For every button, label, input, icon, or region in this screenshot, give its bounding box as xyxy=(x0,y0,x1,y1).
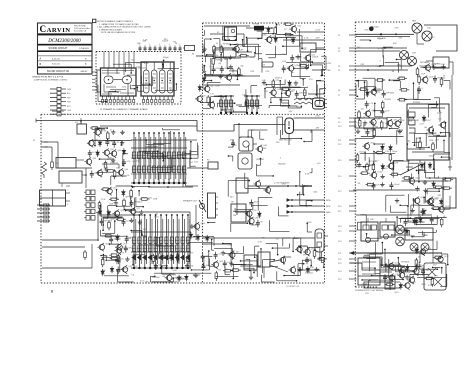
transistor Q55 xyxy=(400,267,405,272)
ground (amp B input stage) xyxy=(112,130,114,132)
svg-text:P20: P20 xyxy=(338,241,341,243)
transistor Q52 (amp B mid stage) xyxy=(107,188,112,193)
wire (PS lower wiring run 6) xyxy=(362,279,369,281)
svg-text:2N3904: 2N3904 xyxy=(215,60,223,62)
wire (amp A right wiring run 5) xyxy=(268,57,275,59)
power amp A dashed left xyxy=(202,23,204,283)
svg-text:P19: P19 xyxy=(338,231,341,233)
connector pin pair 1 xyxy=(86,190,90,195)
resistor R201 xyxy=(51,160,53,162)
svg-text:10K: 10K xyxy=(282,61,286,63)
wire (PS wiring run 11) xyxy=(434,97,439,99)
wire (PS wiring run 43) xyxy=(374,89,382,91)
op-amp U2 pin 6 xyxy=(163,96,165,100)
op-amp U2 pill 1 xyxy=(144,70,150,93)
wire (PS out parts) xyxy=(385,264,387,272)
transistor Q45 xyxy=(280,257,285,262)
connector stub row 3 xyxy=(50,96,57,98)
ground (protect lower) xyxy=(230,262,232,264)
wire (output bank B lower bus y=232) xyxy=(131,231,191,233)
wire (output bank B lower bus y=252) xyxy=(131,251,191,253)
wire +78V rail xyxy=(312,62,325,64)
wire (mid col lower wiring run 12) xyxy=(249,259,251,270)
transistor Q75 (amp B lower right) xyxy=(167,275,172,280)
connector ring ticks xyxy=(325,99,328,101)
svg-text:SOUND CIRCUIT: SOUND CIRCUIT xyxy=(49,47,69,50)
transistor Q79 (mid driver parts) xyxy=(249,218,254,223)
wire (amp A right wiring run 3) xyxy=(281,93,283,103)
resistor R2 (amp A input stage) xyxy=(220,45,222,47)
wire (PS regulator) xyxy=(374,110,383,112)
wire (PS wiring run 31) xyxy=(412,83,414,99)
wire (amp B lower wiring run 7) xyxy=(155,237,159,239)
diode D31 (PS right mid) xyxy=(440,198,442,200)
transistor Q27 (amp B input stage) xyxy=(95,130,100,135)
wire (mid col wiring run 19) xyxy=(247,130,249,137)
resistor R58 (PS out parts) xyxy=(385,283,387,285)
node PS stub 10 xyxy=(349,125,357,127)
wire (mid col lower wiring run 21) xyxy=(270,266,278,268)
svg-text:4.7K: 4.7K xyxy=(102,188,107,190)
resistor R28 (amp B lower left) xyxy=(109,254,111,256)
svg-text:7: 7 xyxy=(125,105,126,107)
wire (mid col wiring run 27) xyxy=(232,140,234,147)
wire (preamp wiring run 10) xyxy=(98,101,106,103)
wire (amp A right wiring run 20) xyxy=(282,86,301,88)
resistor R90 right of preamp xyxy=(185,46,195,51)
svg-text:4-16-03: 4-16-03 xyxy=(52,59,60,61)
svg-text:3: 3 xyxy=(110,105,111,107)
wire (amp A right wiring run 24) xyxy=(320,69,322,75)
wire (mid col wiring run 14) xyxy=(269,230,289,232)
svg-text:MPSA06: MPSA06 xyxy=(176,277,185,280)
resistor R54 (PS lower mid) xyxy=(431,207,433,209)
wire fan loop xyxy=(424,25,457,51)
svg-text:MPSA06: MPSA06 xyxy=(134,201,143,204)
diode D1 (amp A input stage) xyxy=(203,76,205,78)
svg-text:15V: 15V xyxy=(143,229,147,231)
wire lower bus 1 xyxy=(42,239,98,241)
preamp left pin 4 xyxy=(92,82,96,84)
ground (amp A protect) xyxy=(263,80,265,82)
wire (mid col wiring run 25) xyxy=(306,223,308,232)
wire (amp B lower wiring run 3) xyxy=(208,251,210,266)
capacitor C25 (protect lower) xyxy=(224,260,226,263)
wire (mid col lower wiring run 9) xyxy=(277,244,279,255)
wire cell B inner xyxy=(409,107,445,109)
wire (spkr area wires run 2) xyxy=(320,252,322,262)
wire (amp A right wiring run 2) xyxy=(300,106,302,108)
op-amp U1 hatch xyxy=(102,70,134,72)
wire top supply bus xyxy=(36,120,197,122)
wire (PS lower wiring run 4) xyxy=(436,241,438,250)
wire (PS lower wiring run 14) xyxy=(419,268,437,270)
wire PS long 2 xyxy=(356,214,432,216)
wire (preamp wiring run 6) xyxy=(175,84,177,90)
wire bank B lower frame xyxy=(134,211,190,213)
resistor R13 (amp A protect) xyxy=(304,88,306,90)
wire (PS wiring run 22) xyxy=(363,124,365,129)
wire bank feed a xyxy=(189,150,191,168)
wire (amp B upper wiring run 23) xyxy=(190,152,192,159)
wire amp A in xyxy=(205,55,215,57)
wire reg out xyxy=(316,47,325,49)
capacitor C35 (PS out parts) xyxy=(384,274,386,277)
transistor Q68 (output bank B lower col 5) xyxy=(155,215,157,268)
diode D17 (mid driver parts) xyxy=(258,211,260,213)
transistor Q23 (amp A protect) xyxy=(271,90,276,95)
transistor Q33 (amp B input stage) xyxy=(111,151,116,156)
transistor Q69 (output bank B lower col 6) xyxy=(160,215,162,268)
wire (preamp wiring run 3) xyxy=(152,76,154,85)
fuse F2 box xyxy=(208,162,218,169)
wire bank B cross 2 xyxy=(131,173,187,175)
wire (amp A left wiring run 9) xyxy=(247,38,249,51)
wire (amp A left wiring run 23) xyxy=(254,53,256,57)
wire (PS bottom right extra) xyxy=(441,268,443,274)
transistor Q64 (output bank B lower col 1) xyxy=(133,215,135,268)
wire (amp B lower wiring run 12) xyxy=(161,265,167,267)
wire (PS regulator) xyxy=(389,79,400,81)
svg-text:MPSA06: MPSA06 xyxy=(250,223,259,226)
ground (amp B lower right) xyxy=(195,273,197,275)
wire (PS lower wiring run 17) xyxy=(418,231,436,233)
wire (PS wiring run 41) xyxy=(419,204,433,206)
svg-text:F1 8A: F1 8A xyxy=(253,23,259,26)
wire (mid col wiring run 9) xyxy=(299,192,301,206)
wire lower vert xyxy=(97,212,99,240)
wire (PS lower wiring run 24) xyxy=(395,266,397,272)
svg-text:6: 6 xyxy=(121,105,122,107)
diode D22 (PS lower mid) xyxy=(413,218,415,220)
wire (xfmr cell B wiring run 4) xyxy=(428,104,437,106)
wire (PS wiring run 23) xyxy=(418,169,420,182)
wire (bridge wiring run 4) xyxy=(438,177,440,179)
svg-text:DRAWN FROM REV 4 & 8 PCB: DRAWN FROM REV 4 & 8 PCB xyxy=(32,76,64,79)
wire (xfmr cell B wiring run 7) xyxy=(408,117,414,119)
svg-text:NOTES IN SHADED CHART SYMBOLS: NOTES IN SHADED CHART SYMBOLS xyxy=(97,20,134,23)
transistor Q50 (output bank B upper col 10) xyxy=(178,133,180,183)
wire (PS wiring run 32) xyxy=(385,195,387,212)
preamp left pin 1 xyxy=(92,71,96,73)
wire (amp A protect bus) xyxy=(266,87,308,89)
wire (amp A input stage) xyxy=(220,55,222,62)
resistor R30 (amp B lower right) xyxy=(152,254,154,256)
svg-text:2.2K: 2.2K xyxy=(385,151,390,153)
ground (PS regulator) xyxy=(357,129,359,131)
wire (amp B mid stage) xyxy=(138,191,140,196)
capacitor C38 (PS right upper) xyxy=(434,76,436,79)
relay module B contact 2 xyxy=(389,225,395,230)
wire (amp B lower wiring run 8) xyxy=(150,275,155,277)
wire (PS mid) xyxy=(364,153,366,161)
wire second bus xyxy=(100,125,197,127)
ground (mid col right lower) xyxy=(316,267,318,269)
wire (mid col wiring run 3) xyxy=(235,211,248,213)
capacitor filter stack 4 xyxy=(37,216,44,218)
svg-text:100pF: 100pF xyxy=(361,284,368,286)
wire (amp A left wiring run 4) xyxy=(244,102,246,107)
svg-text:P5: P5 xyxy=(338,70,340,72)
title block bar 4 xyxy=(38,67,92,69)
wire (bridge wiring run 6) xyxy=(423,163,425,172)
wire (bridge wiring run 5) xyxy=(407,160,409,170)
wire (amp A left wiring run 14) xyxy=(250,86,252,94)
wire (mid col lower wiring run 5) xyxy=(224,253,244,255)
title block row line b xyxy=(38,60,92,62)
wire (amp A left wiring run 24) xyxy=(215,57,227,59)
svg-text:100pF: 100pF xyxy=(163,57,170,59)
resistor R45 (PS regulator) xyxy=(373,128,375,130)
node PS stub 9 xyxy=(349,121,357,123)
op-amp U1 right pill xyxy=(123,76,132,84)
wire output diag xyxy=(270,260,280,262)
wire (PS wiring run 36) xyxy=(443,140,445,152)
wire (amp B upper wiring run 1) xyxy=(170,156,172,172)
diode D14 (amp B lower left) xyxy=(111,266,113,268)
op-amp U2 pin 7 xyxy=(167,96,169,100)
wire (mid col lower wiring run 19) xyxy=(241,260,258,262)
capacitor C16 (amp B lower left) xyxy=(125,245,127,248)
wire (PS wiring run 26) xyxy=(365,166,369,168)
transistor Q70 (output bank B lower col 7) xyxy=(165,215,167,268)
resistor R301 xyxy=(419,140,421,142)
wire (PS wiring run 15) xyxy=(427,188,439,190)
transistor Q10 (amp A bank L col 2) xyxy=(225,96,227,113)
resistor R8 (amp A top right) xyxy=(283,23,285,25)
relay module A contact 2 xyxy=(371,225,377,230)
resistor R3 (amp A input stage) xyxy=(212,57,214,59)
transistor Q58 (amp B lower left) xyxy=(99,245,104,250)
wire (mid col wiring run 21) xyxy=(244,173,246,189)
transistor Q105 (amp B right edge) xyxy=(194,224,199,229)
resistor R202 zigzag xyxy=(42,162,47,178)
svg-text:4.7K: 4.7K xyxy=(434,275,439,277)
node PS stub 11 xyxy=(349,139,357,141)
ground (protect lower) xyxy=(222,251,224,253)
wire (amp B upper wiring run 13) xyxy=(162,154,164,161)
title block border xyxy=(38,23,93,74)
transistor Q101 (PS lower mid) xyxy=(427,199,432,204)
wire (bridge wiring run 1) xyxy=(417,163,419,174)
wire (amp A left wiring run 19) xyxy=(206,82,208,87)
ground (amp B lower left) xyxy=(126,257,128,259)
op-amp U1 pin 6 xyxy=(121,96,123,100)
svg-text:MPSA06: MPSA06 xyxy=(126,196,135,199)
capacitor C37 (PS right mid) xyxy=(431,216,433,219)
transistor Q71 (output bank B lower col 8) xyxy=(171,215,173,268)
wire (protect lower bus) xyxy=(216,276,239,278)
wire (spkr area wires run 3) xyxy=(306,246,308,253)
wire (xfmr cell B wiring run 1) xyxy=(416,146,429,148)
resistor R53 (PS mid) xyxy=(366,184,368,186)
diode D5 (amp A top right) xyxy=(292,37,294,39)
resistor R20 (amp B mid stage) xyxy=(130,189,132,191)
svg-text:P22: P22 xyxy=(338,259,341,261)
wire (amp A right wiring run 11) xyxy=(315,80,317,95)
op-amp U1 pin 7 xyxy=(125,96,127,100)
svg-text:J1 PREAMP IN 4 RIBB: J1 PREAMP IN 4 RIBBON TO PREAMP BOARD xyxy=(100,108,148,111)
connector stub row 2 xyxy=(50,92,57,94)
resistor R38 (PS regulator) xyxy=(358,88,360,90)
svg-text:5: 5 xyxy=(117,105,118,107)
wire (amp A left wiring run 26) xyxy=(255,47,257,54)
wire (amp A left wiring run 7) xyxy=(245,102,247,112)
wire (PS lower wiring run 12) xyxy=(409,275,411,281)
transistor Q91 (PS regulator) xyxy=(387,121,392,126)
capacitor C33 (PS lower mid) xyxy=(405,219,407,222)
resistor R4 (amp A input stage) xyxy=(239,55,241,57)
capacitor C15 (amp B lower left) xyxy=(126,236,128,239)
wire (PS regulator bus) xyxy=(361,135,404,137)
wire (xfmr cell B wiring run 8) xyxy=(425,133,427,146)
resistor R12 (amp A protect) xyxy=(281,88,283,90)
svg-text:P1: P1 xyxy=(338,35,340,37)
svg-text:1N4148: 1N4148 xyxy=(371,26,379,28)
wire (amp A right wiring run 19) xyxy=(294,67,309,69)
relay K1 box xyxy=(225,27,237,41)
power supply dashed bottom xyxy=(355,286,378,288)
ground (PS lower mid) xyxy=(412,208,414,210)
wire (PS out parts bus) xyxy=(383,266,422,268)
capacitor C17 (amp B lower left) xyxy=(117,267,119,270)
wire pot links xyxy=(61,183,63,187)
diode D28 (PS out parts) xyxy=(407,264,409,266)
wire (PS lower wiring run 22) xyxy=(440,286,447,288)
wire (mid col lower wiring run 14) xyxy=(230,255,232,265)
resistor R10 (amp A zener net) xyxy=(299,65,301,67)
wire thermal leads xyxy=(426,60,433,62)
diode D13 (amp B lower left) xyxy=(116,234,118,236)
transistor Q95 (PS mid) xyxy=(364,144,369,149)
wire (amp A right wiring run 26) xyxy=(301,36,303,49)
op-amp U2 pin 8 xyxy=(171,96,173,100)
diode D23 (PS lower mid) xyxy=(420,216,422,218)
wire (PS wiring run 29) xyxy=(397,129,403,131)
wire ps bottom links xyxy=(419,253,421,263)
wire (amp A left wiring run 5) xyxy=(258,38,262,40)
wire (PS lower wiring run 19) xyxy=(375,242,377,258)
svg-text:P7: P7 xyxy=(338,95,340,97)
wire (PS lower wiring run 2) xyxy=(384,249,386,266)
small reg box xyxy=(385,276,395,289)
transistor Q14 (amp A bank R col 3) xyxy=(256,96,258,113)
transistor Q65 (output bank B lower col 2) xyxy=(138,215,140,268)
wire (amp B upper wiring run 18) xyxy=(100,128,102,134)
ground (PS right upper) xyxy=(433,65,435,67)
relay module B box xyxy=(380,222,395,237)
capacitor preamp top 6 xyxy=(164,46,166,52)
wire amp A rail a xyxy=(204,25,250,27)
svg-text:080-97: 080-97 xyxy=(81,71,89,73)
capacitor C20 (amp B lower right) xyxy=(155,263,157,266)
transistor Q131 (PS bottom right extra) xyxy=(438,257,443,262)
wire (PS lower wiring run 20) xyxy=(412,236,424,238)
resistor R302 xyxy=(432,142,434,144)
svg-text:15V: 15V xyxy=(151,241,155,243)
transistor Q85 (PS regulator) xyxy=(371,89,376,94)
wire (amp A left wiring run 34) xyxy=(236,71,238,80)
relay K2 box xyxy=(77,124,87,134)
wire (PS wiring run 38) xyxy=(433,208,450,210)
wire (mid col lower wiring run 8) xyxy=(224,266,226,274)
svg-text:4.7K: 4.7K xyxy=(304,38,309,40)
capacitor C36 (mid col right lower) xyxy=(306,257,308,260)
wire (PS wiring run 44) xyxy=(416,224,437,226)
resistor R24 (amp B mid stage) xyxy=(140,198,142,200)
wire (PS bottom right extra bus) xyxy=(417,277,447,279)
ground (amp B mid stage) xyxy=(139,220,141,222)
resistor R70 (PS bottom right extra) xyxy=(431,277,433,279)
amp A input box xyxy=(215,48,236,57)
capacitor C5 (amp A protect) xyxy=(296,91,298,94)
resistor R43 (PS regulator) xyxy=(359,119,361,121)
svg-text:4.7K: 4.7K xyxy=(210,94,215,96)
svg-text:+78V: +78V xyxy=(315,116,320,118)
transistor Q72 (output bank B lower col 9) xyxy=(176,215,178,268)
transistor Q83 (protect lower) xyxy=(213,262,218,267)
wire (mid col wiring run 24) xyxy=(278,215,288,217)
wire (spkr area wires run 7) xyxy=(298,263,304,265)
relay X1 xyxy=(428,268,436,276)
capacitor preamp top 4 xyxy=(154,46,156,52)
node PS stub 14 xyxy=(349,175,357,177)
wire (amp A left wiring run 16) xyxy=(223,39,230,41)
wire (PS lower wiring run 3) xyxy=(381,243,383,254)
svg-text:15V: 15V xyxy=(194,162,198,164)
svg-text:3. RESISTORS 1/4 WATT: 3. RESISTORS 1/4 WATT xyxy=(99,28,123,31)
svg-text:100pF: 100pF xyxy=(168,256,175,258)
svg-text:P2: P2 xyxy=(338,48,340,50)
wire (output bank B upper bus y=183) xyxy=(131,182,187,184)
svg-text:100pF: 100pF xyxy=(126,237,133,239)
node PS stub 15 xyxy=(349,190,357,192)
svg-text:.1: .1 xyxy=(149,44,151,46)
wire (amp A right wiring run 8) xyxy=(270,97,272,102)
svg-text:P15: P15 xyxy=(338,191,341,193)
wire AC line 4 xyxy=(356,65,412,67)
wire lower maze xyxy=(358,276,400,288)
wire speaker line xyxy=(148,186,193,188)
wire AC line 5 xyxy=(356,69,408,71)
jack block J3 xyxy=(40,190,66,206)
wire (amp A protect) xyxy=(302,79,304,86)
pot box lower xyxy=(59,171,82,183)
wire (PS wiring run 21) xyxy=(357,80,367,82)
wire CB1 drop xyxy=(288,134,290,146)
capacitor C39 (PS right upper) xyxy=(418,86,420,89)
svg-text:15V: 15V xyxy=(289,111,293,113)
wire (amp B upper wiring run 22) xyxy=(139,150,157,152)
connector stub row 4 xyxy=(50,101,57,103)
fuse F1 filled xyxy=(254,26,264,31)
capacitor C9 (amp B input stage) xyxy=(123,159,125,162)
wire (amp A left wiring run 6) xyxy=(217,102,234,104)
wire CB1 verts xyxy=(276,117,278,135)
relay module B coil xyxy=(384,234,389,239)
wire (amp A input stage) xyxy=(204,66,206,71)
op-amp U1 pin 4 xyxy=(113,96,115,100)
svg-text:22uF: 22uF xyxy=(215,85,221,87)
diode D10 (amp B mid stage) xyxy=(122,189,124,191)
wire (mid col lower wiring run 15) xyxy=(232,265,234,279)
transistor Q129 (PS bottom right extra) xyxy=(420,249,425,254)
capacitor C8 (amp B input stage) xyxy=(89,150,91,153)
fan M1 xyxy=(412,23,422,33)
op-amp U1 detail a xyxy=(107,68,109,75)
wire lower bus B xyxy=(350,262,362,264)
wire (PS wiring run 40) xyxy=(445,123,447,137)
